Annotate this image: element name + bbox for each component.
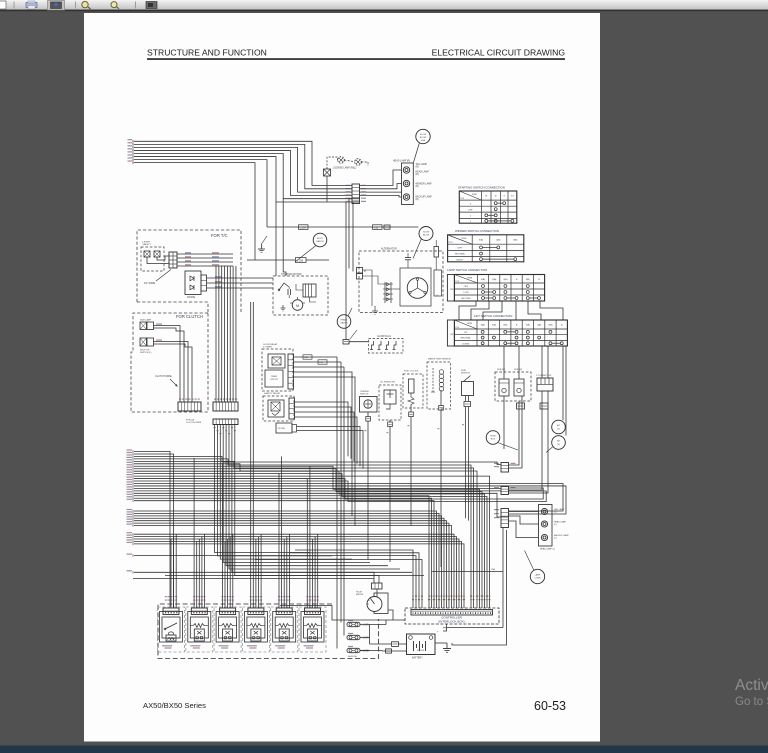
wire	[435, 263, 437, 270]
wire	[363, 270, 373, 306]
svg-text:RIGHT: RIGHT	[456, 259, 463, 261]
connector block B3	[501, 509, 509, 528]
toolbar icon print	[26, 3, 37, 8]
wire	[134, 544, 464, 608]
sub relay enclosure	[495, 372, 531, 401]
svg-text:HEAD LAMP: HEAD LAMP	[416, 171, 430, 174]
wire	[255, 539, 257, 608]
wire	[295, 417, 358, 464]
wire	[134, 144, 352, 188]
wire	[294, 366, 345, 368]
glow plug	[394, 341, 396, 350]
svg-text:ELECTRICAL CIRCUIT DRAWING: ELECTRICAL CIRCUIT DRAWING	[432, 48, 566, 58]
svg-text:80D26R: 80D26R	[417, 650, 425, 652]
T/C lever switch box	[141, 247, 164, 271]
connector block B1	[501, 463, 509, 473]
wire	[349, 341, 369, 343]
glow relay timer enclosure	[262, 349, 293, 391]
svg-text:NEUTRAL: NEUTRAL	[461, 337, 472, 340]
wire pointer F1	[498, 443, 519, 451]
wire label 15B	[373, 225, 383, 230]
wire	[134, 466, 480, 608]
wire	[235, 425, 424, 576]
wire	[250, 302, 252, 608]
wire	[221, 463, 223, 608]
wire	[309, 466, 311, 608]
wire	[294, 377, 356, 525]
toolbar button fit-page pressed	[48, 1, 65, 11]
svg-text:3(B): 3(B)	[526, 279, 530, 281]
wire	[360, 637, 370, 639]
wire	[134, 521, 447, 608]
relay K3 HEAD RELAY	[214, 607, 241, 652]
T/C connector block D1	[169, 252, 177, 268]
svg-text:3(B): 3(B)	[526, 325, 530, 327]
wire	[295, 407, 352, 459]
glow relay connector strip	[288, 354, 294, 389]
alternator enclosure	[359, 251, 443, 313]
svg-text:WINKER SWITCH CONNECTION: WINKER SWITCH CONNECTION	[455, 229, 499, 233]
wire	[134, 454, 174, 608]
svg-text:FUEL CUT SOL: FUEL CUT SOL	[404, 371, 420, 373]
svg-text:1.25R: 1.25R	[300, 227, 306, 229]
wire	[280, 606, 405, 621]
svg-text:CONN: CONN	[535, 578, 541, 580]
wire	[393, 288, 400, 290]
wire to tail lamp R	[360, 170, 402, 186]
wire	[175, 534, 177, 608]
license lamp R	[338, 157, 345, 164]
wire	[227, 539, 229, 608]
relay row enclosure	[158, 604, 379, 659]
fuel sensor	[462, 382, 474, 396]
relay K4 F RELAY	[242, 607, 269, 652]
svg-text:LAMP SWITCH CONNECTION: LAMP SWITCH CONNECTION	[447, 268, 487, 272]
svg-text:5(B): 5(B)	[492, 325, 496, 327]
wire key feed	[267, 226, 419, 228]
wire	[134, 496, 429, 608]
svg-text:EARTH: EARTH	[316, 240, 324, 243]
svg-text:8(B): 8(B)	[513, 240, 517, 242]
toolbar icon text select	[146, 2, 157, 9]
wire	[288, 534, 290, 608]
svg-text:40A: 40A	[421, 139, 425, 142]
wire	[134, 483, 563, 511]
wire	[389, 420, 391, 422]
svg-text:M: M	[296, 304, 299, 308]
connector block A	[178, 402, 201, 411]
svg-text:METER: METER	[356, 594, 364, 596]
svg-text:STARTER MOTOR: STARTER MOTOR	[281, 273, 302, 276]
windows taskbar	[0, 746, 768, 753]
wire	[369, 625, 371, 645]
svg-text:M: M	[485, 196, 487, 198]
svg-text:AX50/BX50 Series: AX50/BX50 Series	[143, 701, 206, 710]
wire	[196, 541, 198, 608]
wire controller supply	[432, 571, 504, 573]
connector circle F1	[486, 431, 500, 445]
wire	[378, 575, 380, 583]
license lamp L	[355, 159, 362, 166]
wire	[281, 456, 283, 608]
svg-text:(INTERLOCK BOX): (INTERLOCK BOX)	[438, 619, 464, 623]
wire	[283, 539, 285, 608]
connector bead P pair	[540, 403, 548, 409]
header rule	[147, 58, 565, 60]
T/C switch contact B	[154, 251, 160, 257]
wire	[134, 461, 474, 608]
relay K5 R RELAY	[271, 607, 298, 652]
wire license feed	[326, 176, 328, 202]
wire	[509, 401, 520, 465]
wire	[382, 650, 407, 652]
svg-text:WINKER LAMP: WINKER LAMP	[416, 183, 433, 186]
toolbar icon save	[0, 1, 6, 9]
wire to winker lamp R	[360, 191, 402, 193]
wire single A	[134, 556, 416, 608]
wire	[134, 481, 546, 501]
wire	[232, 266, 234, 402]
wires table3 to table4	[459, 302, 476, 321]
svg-text:CLUTCH WIRE: CLUTCH WIRE	[186, 422, 202, 424]
wire	[177, 257, 233, 259]
alternator rectifier diodes	[384, 282, 386, 303]
wire drop to alternator B	[349, 199, 360, 269]
wire	[388, 610, 393, 620]
wire	[410, 405, 412, 413]
hour meter	[374, 593, 388, 614]
wire	[177, 265, 233, 267]
head lamp unit box	[402, 163, 414, 205]
connector circle BX	[552, 436, 566, 450]
svg-text:O: O	[503, 196, 505, 198]
wire	[399, 643, 407, 645]
diode connector strip	[201, 275, 207, 291]
controller feed harness labels	[412, 596, 414, 597]
fuse F3	[347, 648, 360, 652]
wire	[370, 643, 392, 645]
wire right trunk	[452, 530, 507, 645]
wire	[286, 537, 288, 608]
svg-text:SUB (W): SUB (W)	[514, 369, 523, 371]
safety relay enclosure	[263, 396, 294, 421]
glow plug	[372, 341, 374, 350]
wire	[220, 425, 352, 560]
starter motor enclosure	[273, 276, 328, 315]
starter solenoid coil	[303, 284, 316, 297]
tail lamp L symbol	[541, 508, 547, 514]
svg-text:3(A): 3(A)	[481, 324, 485, 327]
wire	[147, 257, 169, 264]
wire	[224, 541, 226, 608]
controller feed wires left	[295, 550, 413, 608]
wire	[134, 469, 482, 608]
svg-text:OFF: OFF	[468, 209, 473, 211]
svg-text:DOWN: DOWN	[462, 343, 469, 345]
wire	[134, 471, 485, 608]
relay K6 STARTER RELAY	[299, 607, 326, 652]
svg-text:Activate Windows: Activate Windows	[735, 677, 768, 694]
svg-text:BLOW: BLOW	[423, 235, 429, 237]
glow relay	[268, 354, 285, 368]
svg-text:LAMP: LAMP	[535, 574, 541, 577]
wire	[134, 486, 566, 514]
wire	[170, 539, 172, 608]
connector circle F2	[530, 569, 544, 583]
wire	[447, 627, 503, 629]
alternator capacitor	[405, 257, 411, 259]
svg-text:HEAD LAMP (L): HEAD LAMP (L)	[540, 548, 555, 551]
alternator IC regulator	[434, 270, 442, 296]
svg-text:FOR UE: FOR UE	[186, 419, 195, 421]
wire	[232, 534, 234, 608]
wire	[509, 511, 539, 513]
wire to head lamp R	[360, 184, 402, 189]
wire	[218, 266, 220, 402]
wire	[314, 537, 316, 608]
white document page	[84, 13, 600, 742]
wire to backup lamp R	[360, 195, 402, 197]
license lamp dashed wiring	[327, 157, 338, 169]
svg-text:FOR CLUTCH: FOR CLUTCH	[176, 314, 203, 319]
wire	[223, 425, 370, 563]
wire	[134, 490, 501, 492]
battery	[407, 634, 436, 655]
glow plug connector	[343, 340, 349, 345]
wire pointer E1	[262, 236, 268, 244]
fusible link symbol	[384, 225, 390, 229]
svg-text:LIFT SWITCH CONNECTION: LIFT SWITCH CONNECTION	[474, 314, 512, 318]
svg-text:(R): (R)	[416, 167, 419, 169]
connector bead	[366, 417, 371, 422]
wire	[134, 157, 352, 202]
wire	[376, 589, 378, 597]
wire	[360, 650, 370, 652]
connector bead	[409, 412, 414, 417]
wire	[367, 412, 369, 417]
glow plug	[387, 341, 389, 350]
wire	[177, 253, 233, 255]
wire	[258, 537, 260, 608]
backup lamp L symbol	[541, 534, 547, 540]
svg-text:SWITCH: SWITCH	[360, 394, 369, 396]
wire starter feed A	[275, 202, 277, 276]
wire	[134, 526, 452, 608]
svg-text:5(A): 5(A)	[492, 278, 496, 281]
wire	[134, 511, 437, 608]
svg-text:UP: UP	[464, 332, 468, 334]
connector circle R1	[416, 129, 430, 143]
wire	[134, 539, 459, 608]
wire	[134, 498, 432, 608]
svg-text:5(B): 5(B)	[479, 240, 483, 242]
wire	[204, 534, 206, 608]
connector block C	[213, 419, 238, 425]
wire	[518, 346, 520, 379]
battery ground	[446, 643, 448, 649]
svg-text:B: B	[364, 269, 366, 273]
wire	[154, 342, 189, 403]
starter motor M	[292, 300, 303, 311]
wire	[310, 297, 317, 302]
svg-text:DIODE: DIODE	[187, 295, 195, 299]
svg-text:DC WIRE: DC WIRE	[144, 281, 156, 285]
svg-text:BODY: BODY	[317, 238, 324, 240]
wire single B	[134, 572, 374, 583]
fuel cut solenoid	[403, 374, 423, 408]
battery inline connector	[392, 642, 399, 647]
wire	[157, 256, 169, 260]
wire	[134, 452, 170, 608]
wire	[232, 425, 412, 573]
svg-text:SENSOR: SENSOR	[461, 373, 470, 375]
wire	[154, 326, 181, 403]
fuse F1	[347, 622, 360, 626]
wire pointer E2	[295, 246, 316, 263]
wire pointer BX	[546, 447, 553, 453]
wire	[294, 372, 353, 516]
wire	[134, 541, 462, 608]
svg-text:BLOW: BLOW	[420, 137, 427, 139]
svg-text:NEUTRAL: NEUTRAL	[455, 253, 466, 256]
svg-text:(L): (L)	[554, 511, 557, 513]
svg-text:15A: 15A	[319, 361, 323, 364]
diode strip 2	[292, 425, 297, 433]
starter ground	[282, 305, 284, 308]
wire	[297, 297, 299, 300]
wire	[229, 425, 400, 570]
connector block B2	[501, 487, 509, 495]
sub relay 2	[514, 379, 524, 396]
wire	[134, 459, 471, 608]
wire	[562, 346, 564, 420]
wire	[134, 476, 490, 608]
license lamp connector	[324, 169, 331, 176]
wire	[360, 624, 386, 626]
oil pressure switch	[379, 385, 401, 420]
svg-text:FUSE: FUSE	[490, 436, 496, 438]
wire starter feed B	[283, 199, 286, 276]
wire	[215, 425, 311, 553]
head lamp L symbol	[541, 521, 547, 527]
wire	[440, 390, 442, 406]
shuttle switch connector	[140, 338, 147, 346]
wire	[252, 302, 254, 608]
wire	[173, 537, 175, 608]
svg-text:2(A): 2(A)	[503, 278, 507, 281]
wire	[201, 537, 203, 608]
safety relay connector strip	[289, 398, 295, 419]
svg-text:STARTING SWITCH CONNECTION: STARTING SWITCH CONNECTION	[458, 185, 505, 189]
diode pack	[185, 271, 201, 295]
svg-text:CIRCUIT: CIRCUIT	[270, 379, 279, 381]
diode pack 2	[276, 423, 292, 433]
wire pointer E4	[348, 308, 352, 316]
svg-text:ALTERNATOR: ALTERNATOR	[381, 248, 397, 251]
wire	[468, 396, 470, 402]
wire label 1.25B	[247, 259, 273, 261]
svg-text:LICENSE LAMP (R&L): LICENSE LAMP (R&L)	[333, 166, 357, 169]
svg-text:TERM: TERM	[467, 323, 473, 325]
wire	[260, 534, 262, 608]
alternator stator	[407, 278, 428, 299]
wire	[297, 427, 361, 467]
wire	[134, 513, 439, 608]
svg-text:BATTERY: BATTERY	[412, 656, 423, 659]
wire	[509, 521, 539, 538]
wire	[215, 266, 217, 402]
water temp sensor	[427, 362, 451, 409]
wire	[207, 282, 274, 284]
svg-text:TERM: TERM	[461, 238, 467, 240]
T/C switch contact A	[144, 251, 150, 257]
wire	[229, 537, 231, 608]
svg-text:(R): (R)	[416, 186, 419, 188]
glow plugs box	[369, 339, 404, 354]
wire	[134, 456, 501, 464]
wire	[295, 402, 349, 456]
svg-text:OFF: OFF	[464, 286, 469, 288]
svg-text:(R): (R)	[416, 199, 419, 201]
wire drop to alternator L	[353, 202, 360, 272]
wire	[134, 534, 454, 608]
controller interlock box	[405, 608, 499, 624]
toolbar icon zoom2	[111, 2, 117, 8]
wire	[134, 523, 449, 608]
viewer toolbar	[0, 0, 768, 10]
wire	[312, 539, 314, 608]
toolbar icon zoom tool	[82, 1, 88, 7]
svg-text:TAIL LAMP: TAIL LAMP	[416, 163, 428, 166]
wire	[294, 356, 338, 358]
battery stub connector	[386, 649, 392, 653]
svg-text:& TIMER: & TIMER	[263, 347, 272, 349]
tail lamp R symbol	[403, 167, 409, 173]
svg-text:SECOND: SECOND	[461, 298, 471, 300]
wire into T/C box	[134, 163, 255, 260]
svg-text:LEVER: LEVER	[143, 242, 151, 244]
connector block B	[213, 402, 238, 411]
wire pointer F2	[525, 551, 535, 571]
alternator B terminal connector	[357, 268, 363, 274]
wire	[134, 479, 543, 499]
wire	[503, 396, 505, 449]
svg-text:30A: 30A	[304, 356, 308, 359]
wire	[134, 537, 457, 608]
svg-text:4(B): 4(B)	[496, 240, 500, 242]
wire	[235, 266, 237, 402]
FOR T/C enclosure	[137, 230, 241, 313]
wire	[306, 478, 308, 608]
svg-text:Go to Settings to activate Win: Go to Settings to activate Windows.	[735, 696, 768, 708]
svg-text:GLOW PLUG: GLOW PLUG	[377, 336, 391, 338]
wire	[502, 528, 504, 628]
side lamp connector	[140, 322, 147, 330]
wire	[134, 501, 434, 608]
svg-text:(R): (R)	[416, 174, 419, 176]
wire	[509, 396, 523, 468]
starter capacitor	[287, 289, 289, 295]
wire	[226, 425, 388, 566]
wire	[134, 150, 352, 195]
wire	[177, 261, 233, 263]
wire single C	[133, 578, 374, 580]
wire	[278, 473, 280, 608]
wire	[134, 464, 477, 608]
wire	[509, 516, 539, 524]
FOR CLUTCH enclosure	[131, 313, 208, 412]
alternator inner frame	[400, 268, 431, 306]
